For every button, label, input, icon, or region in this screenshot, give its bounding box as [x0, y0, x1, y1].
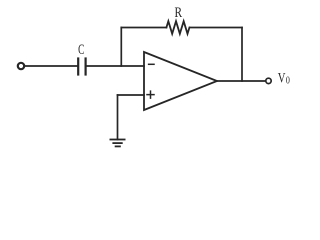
capacitor C1 left plate [77, 59, 79, 75]
capacitor C1 right plate [84, 59, 86, 75]
svg-text:R: R [175, 5, 183, 21]
output terminal circle [266, 78, 271, 83]
wire feedback vertical right down to output node [241, 28, 243, 82]
resistor R1 zigzag [166, 21, 189, 34]
wire top rail left to resistor [121, 27, 166, 29]
wire op-amp output [217, 80, 266, 82]
op-amp U1 triangle [144, 52, 217, 110]
svg-text:C: C [78, 42, 84, 58]
input terminal circle [18, 63, 24, 69]
op-amp plus sign [147, 91, 154, 98]
wire non-inverting input vertical down [117, 95, 119, 140]
wire input to capacitor [25, 65, 77, 67]
wire feedback vertical left from node A [120, 28, 122, 67]
op-amp minus sign [149, 63, 154, 65]
svg-text:0: 0 [286, 75, 290, 87]
wire capacitor to op-amp inverting input [87, 65, 144, 67]
wire non-inverting input horizontal [118, 94, 145, 96]
ground symbol [110, 140, 124, 147]
wire resistor to right corner [190, 27, 242, 29]
svg-text:V: V [278, 71, 286, 87]
